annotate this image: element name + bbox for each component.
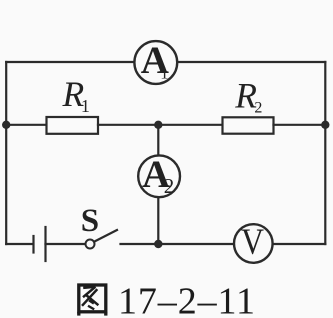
resistor R2 body xyxy=(223,117,274,133)
svg-text:17–2–11: 17–2–11 xyxy=(118,280,256,318)
wire battery to switch xyxy=(46,243,86,245)
wire bottom rail: left corner to battery xyxy=(6,243,33,245)
node junction: middle rail x right rail xyxy=(321,121,329,129)
battery cell negative plate (short) xyxy=(32,236,34,253)
node junction: bottom rail center xyxy=(154,240,162,248)
ammeter A2 circle xyxy=(138,155,180,197)
wire top rail right segment xyxy=(178,61,325,63)
wire right vertical rail xyxy=(324,62,326,244)
svg-text:2: 2 xyxy=(164,174,175,198)
wire middle rail: R1 to center node xyxy=(98,124,158,126)
svg-text:1: 1 xyxy=(81,96,90,116)
svg-text:2: 2 xyxy=(254,100,262,117)
wire A2 branch lower (A2 to bottom node) xyxy=(157,198,159,244)
wire A2 branch upper (center node to A2) xyxy=(157,125,159,155)
switch S lever arm xyxy=(95,230,118,242)
caption glyph 图 (drawn as strokes) xyxy=(79,285,106,316)
wire top rail left segment xyxy=(6,61,133,63)
wire middle rail: left rail to R1 xyxy=(6,124,46,126)
svg-text:V: V xyxy=(241,220,264,262)
wire switch fixed contact to bottom node xyxy=(121,243,159,245)
node junction: middle rail center xyxy=(154,121,162,129)
battery cell positive plate (long) xyxy=(44,227,46,261)
wire voltmeter to right rail xyxy=(274,243,325,245)
svg-text:1: 1 xyxy=(160,64,168,83)
switch S pivot circle xyxy=(86,240,95,249)
resistor R1 body xyxy=(47,117,99,134)
svg-text:S: S xyxy=(81,203,99,239)
wire middle rail: R2 to right rail xyxy=(274,124,326,126)
wire middle rail: center node to R2 xyxy=(158,124,222,126)
wire bottom node to voltmeter xyxy=(158,243,233,245)
voltmeter V circle xyxy=(234,224,273,263)
ammeter A1 circle xyxy=(134,41,177,84)
wire left vertical rail xyxy=(5,62,7,244)
node junction: middle rail x left rail xyxy=(2,121,10,129)
